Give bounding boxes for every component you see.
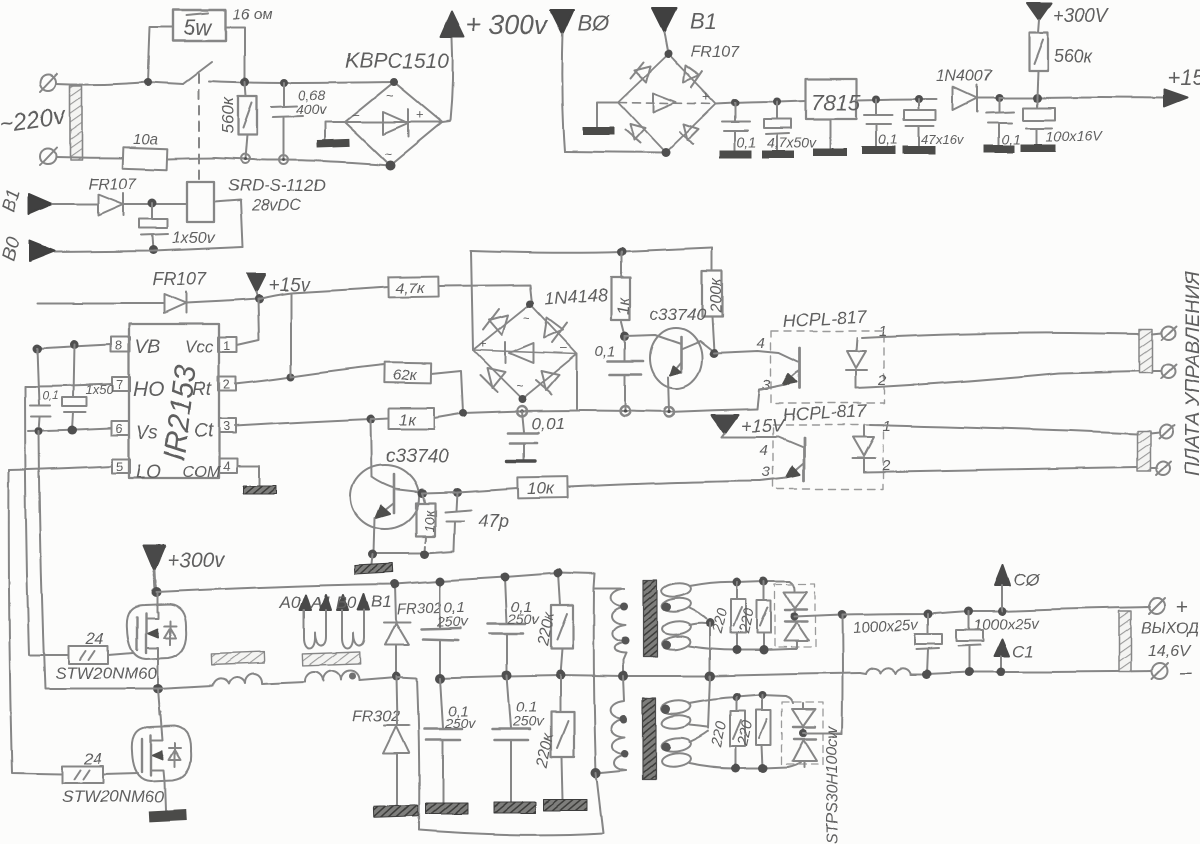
junction cap 0.1a xyxy=(731,99,739,107)
svg-text:62к: 62к xyxy=(393,367,418,384)
svg-text:B1: B1 xyxy=(690,9,717,34)
junction rail emitter xyxy=(664,407,674,417)
wire snubber return drop xyxy=(417,678,419,830)
junction VB-1x50 xyxy=(70,341,79,350)
wire opto1 pin1 to board xyxy=(862,333,1139,338)
connector B1 input xyxy=(0,186,52,214)
wire VB feed xyxy=(38,302,164,304)
resistor 220 a xyxy=(709,582,746,650)
pin 1 Vcc xyxy=(185,337,237,356)
junction +15v node xyxy=(255,295,264,304)
bridge rectifier FR107 xyxy=(618,50,716,158)
svg-text:C1: C1 xyxy=(1012,642,1034,661)
capacitor 0.68 400v xyxy=(271,83,327,160)
svg-text:100x16V: 100x16V xyxy=(1046,128,1103,144)
capacitor 0.1 base xyxy=(595,336,643,410)
connector hatch bar upper xyxy=(1139,329,1152,373)
wire center tap T2 to mid xyxy=(708,676,710,728)
wire center tap T1 to mid xyxy=(709,623,711,676)
junction 10K bottom xyxy=(421,550,430,559)
svg-text:~220v: ~220v xyxy=(0,102,69,138)
svg-text:7815: 7815 xyxy=(811,90,861,115)
resistor 24 gate lower xyxy=(62,751,138,783)
svg-text:ВЫХОД: ВЫХОД xyxy=(1141,620,1199,637)
transformer T2 secondary C xyxy=(661,695,793,730)
resistor 10K horizontal xyxy=(518,477,567,499)
svg-text:7: 7 xyxy=(116,377,123,392)
capacitor 1x50v relay xyxy=(139,203,216,250)
bridge rectifier 1N4148 xyxy=(473,300,577,403)
terminal board 2 xyxy=(1152,364,1176,378)
svg-text:A0: A0 xyxy=(279,593,301,612)
wire source node xyxy=(157,658,159,689)
svg-text:220к: 220к xyxy=(535,610,558,649)
wire Vs run xyxy=(39,431,158,689)
junction C0 stem xyxy=(998,607,1007,616)
wire switch to bridge xyxy=(209,81,394,83)
svg-text:1: 1 xyxy=(882,418,890,435)
svg-text:FR107: FR107 xyxy=(152,269,207,289)
svg-text:10к: 10к xyxy=(527,479,555,498)
terminal board 3 xyxy=(1150,424,1174,438)
core bar L2 xyxy=(303,652,360,666)
junction 220K top xyxy=(554,569,563,578)
resistor 220 c xyxy=(708,697,745,768)
transformer T1 secondary B xyxy=(661,620,789,651)
wire Ct rail xyxy=(434,409,757,418)
svg-text:+ 300v: + 300v xyxy=(466,10,549,40)
svg-text:4: 4 xyxy=(760,442,768,459)
ground KBPC xyxy=(317,122,350,148)
optocoupler HCPL-817 upper xyxy=(714,307,887,409)
wire LO run down xyxy=(9,470,62,774)
core T1 xyxy=(643,580,657,657)
pin 5 LO xyxy=(112,459,162,483)
pin 8 VB xyxy=(111,337,161,358)
junction cap 4.7x50 xyxy=(773,98,781,106)
svg-text:4,7x50v: 4,7x50v xyxy=(767,134,817,150)
wire HO rail xyxy=(25,384,112,386)
ground source lower xyxy=(149,809,187,822)
capacitor 1000x25v b xyxy=(956,611,983,672)
resistor 62K xyxy=(291,363,431,384)
IC IR2153 body xyxy=(129,324,219,478)
svg-text:+300v: +300v xyxy=(167,549,226,572)
svg-text:+: + xyxy=(703,89,711,104)
wire Rt pin2 xyxy=(235,377,291,384)
junction sec2 bot b xyxy=(759,764,768,773)
svg-text:220к: 220к xyxy=(534,731,557,770)
junction VB-0.1 xyxy=(33,345,42,354)
svg-text:6: 6 xyxy=(115,421,122,436)
junction STPS lower out xyxy=(799,729,807,737)
wire L2 to FR302 node xyxy=(359,677,396,680)
transistor C33740 left xyxy=(351,465,420,553)
wire return bottom loop xyxy=(419,773,603,835)
junction cap 0.1c xyxy=(995,94,1003,102)
wire rail to bridge plus xyxy=(471,251,473,350)
power +15V arrow opto xyxy=(712,415,786,437)
resistor 220 b xyxy=(736,581,771,650)
svg-text:1к: 1к xyxy=(399,412,417,429)
wire Vcc pin1 xyxy=(237,299,259,345)
wire bridge to 7815 xyxy=(716,101,806,104)
transistor C33740 right xyxy=(625,328,714,411)
svg-text:250v: 250v xyxy=(444,715,476,731)
svg-text:+: + xyxy=(479,336,487,351)
core T2 xyxy=(643,698,656,780)
capacitor 0.1 250v d xyxy=(492,675,544,802)
terminal input phase top xyxy=(40,74,57,92)
svg-text:5: 5 xyxy=(116,459,123,474)
pin 7 HO xyxy=(112,377,165,401)
svg-text:HCPL-817: HCPL-817 xyxy=(782,401,868,425)
svg-text:c33740: c33740 xyxy=(650,305,706,324)
svg-text:c33740: c33740 xyxy=(386,446,449,467)
wire STPS upper to out rail xyxy=(794,615,842,617)
resistor 220K upper xyxy=(535,573,573,675)
junction collector 10K xyxy=(418,489,427,498)
diode pair STPS upper xyxy=(775,584,815,649)
junction cap 0.1b xyxy=(872,95,880,103)
resistor 560K dropper xyxy=(1029,20,1094,98)
transformer T2 primary xyxy=(611,676,629,770)
ground 220K xyxy=(544,799,587,810)
wire fuse to bridge bottom xyxy=(215,158,390,165)
capacitor 0.1 output xyxy=(984,98,1021,153)
svg-text:1к: 1к xyxy=(614,297,633,315)
wire rail corner to primary1 xyxy=(594,574,624,589)
junction minus cap b xyxy=(965,668,974,677)
winding B0-B1 sense xyxy=(336,592,392,649)
junction 1K vert top xyxy=(617,248,626,257)
svg-text:HCPL-817: HCPL-817 xyxy=(782,307,868,331)
svg-text:220: 220 xyxy=(708,719,730,749)
fuse 10A xyxy=(123,131,215,170)
diode FR107 bootstrap xyxy=(164,292,258,313)
svg-text:3: 3 xyxy=(223,419,230,434)
wire Ct node to base xyxy=(371,419,372,477)
junction cap1000a xyxy=(924,610,933,619)
wire top control rail xyxy=(471,248,712,253)
resistor 220K lower xyxy=(534,675,574,799)
wire opto1 pin2 to board xyxy=(856,371,1139,388)
svg-text:STW20NM60: STW20NM60 xyxy=(55,664,158,683)
junction source node xyxy=(153,684,163,694)
wire HO run down xyxy=(25,386,69,655)
transformer T2 secondary D xyxy=(661,731,801,768)
winding A0-A1 sense xyxy=(279,593,332,649)
pin 4 COM xyxy=(183,459,237,481)
capacitor 100x16v xyxy=(1021,98,1103,152)
wire 7815 out xyxy=(856,99,937,100)
junction drain node xyxy=(151,587,161,597)
junction cap 1x50v top xyxy=(148,199,157,208)
wire Vs rail xyxy=(28,428,111,431)
wire 62K down to rail xyxy=(431,371,463,412)
junction Ct node xyxy=(367,415,376,424)
svg-text:–: – xyxy=(560,340,568,355)
capacitor 0.1 bootstrap xyxy=(30,349,59,431)
svg-text:0,1: 0,1 xyxy=(42,388,59,402)
svg-text:B1: B1 xyxy=(0,186,25,214)
wire mid rail xyxy=(437,673,860,678)
wire minus rail right xyxy=(911,671,1152,674)
power +300v arrow xyxy=(441,12,464,37)
dashed relay link from switch xyxy=(198,74,200,181)
wire LO rail xyxy=(9,466,112,470)
connector B1 top xyxy=(652,8,717,34)
wire B1 to diode xyxy=(52,203,98,205)
svg-text:COM: COM xyxy=(183,464,221,481)
wire L1 to L2 xyxy=(262,682,305,684)
wire 10K to opto pin3 xyxy=(567,481,760,487)
junction out vertical top xyxy=(838,611,847,620)
svg-text:+: + xyxy=(416,107,424,122)
junction emitter-ground xyxy=(369,550,378,559)
junction 560K top xyxy=(241,78,250,87)
wire collector to 10K xyxy=(422,488,518,493)
wire VB rail xyxy=(37,345,111,349)
svg-text:FR107: FR107 xyxy=(88,176,137,193)
junction mid cap a xyxy=(435,673,445,683)
svg-text:FR107: FR107 xyxy=(691,44,740,61)
wire diode to relay xyxy=(123,203,187,205)
wire mid rail left xyxy=(396,677,417,678)
svg-text:LO: LO xyxy=(136,462,162,483)
wire Ct pin3 xyxy=(235,419,371,426)
power +300v arrow mid xyxy=(143,545,226,591)
power C0 arrow xyxy=(995,565,1041,611)
junction 560K bottom xyxy=(241,155,250,164)
ground cap d xyxy=(494,802,536,813)
junction mid primaries xyxy=(618,671,628,681)
power C1 arrow xyxy=(994,639,1034,672)
svg-text:~: ~ xyxy=(384,146,392,161)
svg-text:SRD-S-112D: SRD-S-112D xyxy=(228,176,326,195)
svg-text:B1: B1 xyxy=(371,592,392,611)
junction minus C1 xyxy=(997,668,1006,677)
wire primary1 bottom to mid xyxy=(623,653,626,676)
wire B1 to bridge top xyxy=(664,32,668,54)
junction sec2 top a xyxy=(732,693,740,701)
resistor 24 gate upper xyxy=(69,631,133,664)
diode FR107 relay xyxy=(88,176,137,215)
svg-text:~: ~ xyxy=(516,379,523,393)
capacitor 0.1 after 7815 xyxy=(862,99,897,154)
junction cap 47x16 xyxy=(915,95,923,103)
inductor output xyxy=(866,668,911,674)
svg-text:28vDC: 28vDC xyxy=(251,197,301,214)
connector hatch bar output xyxy=(1119,611,1131,672)
svg-text:FR302: FR302 xyxy=(352,708,400,725)
capacitor 0.1 250v b xyxy=(487,577,539,675)
resistor 200K xyxy=(702,248,725,352)
regulator 7815 xyxy=(806,79,861,156)
junction Rt node xyxy=(287,373,295,381)
wire source to ground xyxy=(165,781,166,810)
output +15 arrow xyxy=(1164,65,1200,107)
svg-text:560к: 560к xyxy=(1054,46,1094,66)
svg-text:Ct: Ct xyxy=(194,421,214,442)
resistor R 5w xyxy=(173,10,226,41)
svg-text:+: + xyxy=(1176,596,1188,619)
svg-text:250v: 250v xyxy=(436,613,468,629)
junction 1K-0.1-base xyxy=(621,332,630,341)
wire Rt-4.7K vertical xyxy=(290,293,292,377)
terminal board 4 xyxy=(1150,461,1171,475)
junction cap1000b xyxy=(965,607,974,616)
svg-text:1000x25v: 1000x25v xyxy=(852,617,919,637)
wire primary2 bottom xyxy=(596,770,626,773)
junction center tap T1 xyxy=(706,619,715,628)
svg-text:Vs: Vs xyxy=(136,423,159,444)
junction minus cap a xyxy=(923,670,932,679)
svg-text:~: ~ xyxy=(386,88,394,103)
svg-text:+15: +15 xyxy=(1167,65,1200,90)
svg-text:2: 2 xyxy=(223,377,230,392)
svg-text:1N4148: 1N4148 xyxy=(544,285,608,309)
junction mid cap b xyxy=(502,670,512,680)
svg-text:+15V: +15V xyxy=(741,416,786,436)
svg-text:FR302: FR302 xyxy=(397,599,443,618)
junction sec top a xyxy=(733,578,742,587)
junction sec top b xyxy=(760,577,769,586)
svg-text:4,7к: 4,7к xyxy=(396,280,425,297)
wire 4.7K feed from +15 xyxy=(259,287,389,299)
wire output minus rail xyxy=(860,673,866,674)
ground COM xyxy=(243,486,276,494)
junction cap a top xyxy=(436,577,445,586)
junction cap 0.68 top xyxy=(280,79,288,87)
wire out vertical xyxy=(841,615,844,733)
junction FR302 mid rail xyxy=(392,672,401,681)
resistor 560K xyxy=(218,82,257,159)
capacitor 4.7x50v xyxy=(762,102,817,158)
diode FR302 lower xyxy=(383,676,409,806)
wire emitter bottom xyxy=(374,551,454,553)
pin 2 Rt xyxy=(192,377,236,400)
wire 5w branch left xyxy=(148,27,173,82)
wire opto2 pin1 to board xyxy=(870,425,1137,434)
wire B0 xyxy=(55,247,243,252)
svg-text:–: – xyxy=(352,107,360,122)
svg-text:0,1: 0,1 xyxy=(878,131,897,147)
junction collector 47p xyxy=(453,488,462,497)
junction sec2 top b xyxy=(758,691,766,699)
svg-text:STW20NM60: STW20NM60 xyxy=(62,787,165,806)
svg-text:+300V: +300V xyxy=(1053,6,1111,27)
junction rail 62K xyxy=(459,409,467,417)
svg-text:16 ом: 16 ом xyxy=(233,6,272,23)
connector B0 input xyxy=(0,235,55,263)
svg-text:HO: HO xyxy=(133,378,165,401)
resistor 1K horizontal xyxy=(371,408,434,429)
svg-text:10к: 10к xyxy=(421,508,437,532)
transformer T1 secondary A xyxy=(661,581,795,619)
wire opto2 pin2 to board xyxy=(864,467,1137,472)
svg-text:10а: 10а xyxy=(133,131,158,148)
connector hatch bar lower xyxy=(1137,431,1150,471)
svg-text:1x50v: 1x50v xyxy=(172,230,216,247)
junction STPS upper out xyxy=(790,613,798,621)
transistor STW20NM60 upper xyxy=(127,592,186,659)
capacitor 1000x25v a xyxy=(915,614,942,674)
svg-text:4: 4 xyxy=(757,335,765,352)
svg-text:220: 220 xyxy=(709,606,731,636)
svg-text:IR2153: IR2153 xyxy=(158,363,203,463)
junction rail 0.01 xyxy=(517,406,527,416)
junction FR302 top rail xyxy=(391,580,400,589)
junction rail 0.1 xyxy=(620,406,630,416)
ground emitter xyxy=(355,554,393,574)
svg-text:VB: VB xyxy=(135,337,161,358)
switch SW1 xyxy=(148,62,212,84)
junction mid 220K xyxy=(555,670,565,680)
junction collector 200K xyxy=(710,349,719,358)
resistor 1K vertical xyxy=(611,252,633,336)
svg-text:250v: 250v xyxy=(512,713,544,729)
svg-text:B0: B0 xyxy=(336,593,357,612)
wire output plus rail xyxy=(842,607,1150,615)
wire 5w branch right xyxy=(226,27,245,82)
capacitor 0.1 before 7815 xyxy=(720,103,756,158)
svg-text:Vcc: Vcc xyxy=(185,337,214,356)
svg-text:1N4007: 1N4007 xyxy=(936,68,993,85)
svg-text:0,1: 0,1 xyxy=(1002,131,1021,147)
ground cap c xyxy=(426,803,468,814)
junction cap b top xyxy=(501,573,510,582)
svg-text:BØ: BØ xyxy=(578,11,612,36)
core bar L1 xyxy=(211,652,264,665)
optocoupler HCPL-817 lower xyxy=(722,401,891,489)
bridge rectifier KBPC1510 xyxy=(345,50,449,170)
svg-text:ПЛАТА УПРАВЛЕНИЯ: ПЛАТА УПРАВЛЕНИЯ xyxy=(1182,271,1200,476)
wire 1N4007 to +15 xyxy=(999,97,1164,100)
svg-text:220: 220 xyxy=(734,718,756,748)
wire AC bottom xyxy=(56,157,123,158)
power +15v arrow xyxy=(247,274,311,299)
junction cap 0.68 bottom xyxy=(280,156,289,165)
wire STPS lower to vertical xyxy=(803,732,842,734)
junction mid tap xyxy=(705,671,715,681)
capacitor 47p xyxy=(445,492,508,550)
capacitor 1x50 bootstrap xyxy=(62,345,114,430)
terminal output plus xyxy=(1149,596,1188,619)
capacitor 0.1 250v c xyxy=(424,678,476,803)
transformer T1 primary xyxy=(611,589,629,653)
svg-text:47x16v: 47x16v xyxy=(921,132,964,147)
svg-text:250v: 250v xyxy=(507,611,539,627)
junction switch-5w xyxy=(144,78,152,86)
svg-text:STPS30H100cw: STPS30H100cw xyxy=(824,725,841,844)
terminal board 1 xyxy=(1152,326,1176,340)
wire B0 to bridge bottom xyxy=(565,152,666,153)
svg-text:8: 8 xyxy=(115,338,122,353)
junction sec bot b xyxy=(760,646,769,655)
ground FR302 xyxy=(374,805,418,818)
junction primary return xyxy=(591,768,601,778)
svg-text:B0: B0 xyxy=(0,235,25,263)
terminal output minus xyxy=(1152,661,1192,684)
svg-text:4: 4 xyxy=(223,459,230,474)
svg-text:KBPC1510: KBPC1510 xyxy=(345,50,449,73)
svg-text:0,1: 0,1 xyxy=(595,343,616,360)
svg-text:Rt: Rt xyxy=(192,379,212,400)
svg-text:14,6V: 14,6V xyxy=(1148,643,1191,660)
inductor L2 xyxy=(305,671,359,683)
power +300V arrow top xyxy=(1027,3,1111,27)
